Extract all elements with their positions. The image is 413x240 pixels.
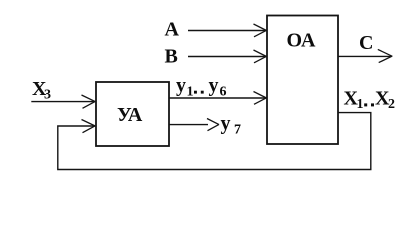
svg-text:у: у [176, 75, 186, 97]
svg-text:6: 6 [220, 85, 227, 100]
arrowhead C [378, 49, 393, 62]
wire A input [188, 30, 266, 32]
svg-text:7: 7 [234, 123, 241, 138]
svg-text:УА: УА [117, 104, 143, 126]
svg-text:1: 1 [187, 85, 194, 100]
svg-text:2: 2 [388, 97, 395, 112]
arrowhead A [254, 24, 267, 37]
svg-text:у: у [221, 113, 231, 135]
svg-text:ОА: ОА [287, 30, 317, 52]
arrowhead X3 [82, 95, 96, 108]
svg-text:A: A [165, 19, 180, 41]
svg-text:C: C [359, 32, 373, 54]
wire X3 input [31, 101, 95, 103]
arrowhead Y1..Y6 [254, 92, 267, 105]
wire C output of OA [338, 55, 391, 57]
svg-text:3: 3 [44, 88, 51, 103]
wire B input [188, 56, 266, 58]
svg-text:у: у [209, 75, 219, 97]
wire Y1..Y6 from UA to OA [169, 97, 266, 99]
arrowhead Y7 [207, 119, 219, 131]
svg-text:B: B [165, 46, 178, 68]
block UA (control unit) [96, 82, 169, 146]
arrowhead feedback into UA [82, 120, 96, 133]
svg-text:1: 1 [357, 97, 364, 112]
wire Y7 output of UA [169, 124, 208, 126]
block OA (operational unit) [267, 16, 338, 145]
arrowhead B [254, 50, 267, 63]
wire feedback X1..X2 from OA to UA [58, 113, 371, 170]
